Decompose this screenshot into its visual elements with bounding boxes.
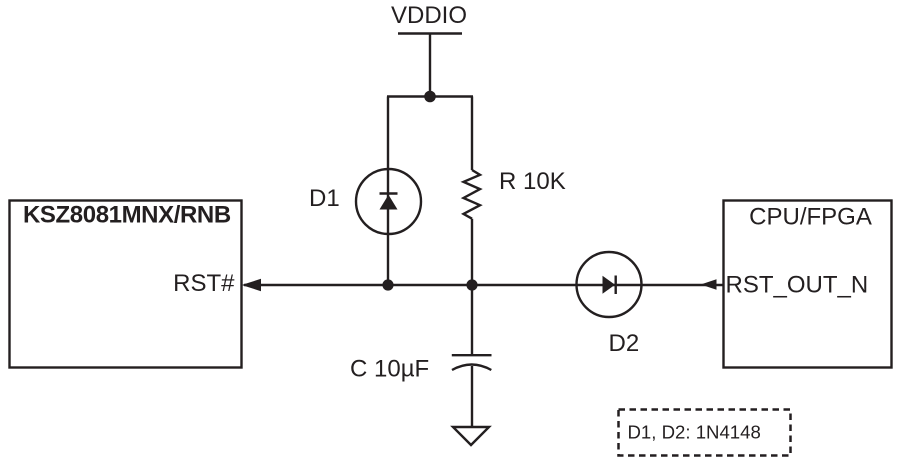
power VDDIO bar	[398, 32, 462, 35]
svg-text:RST_OUT_N: RST_OUT_N	[726, 271, 869, 298]
wire capacitor to ground	[471, 366, 473, 427]
svg-text:R 10K: R 10K	[499, 168, 566, 195]
wire right branch lower	[471, 219, 473, 285]
svg-text:C 10µF: C 10µF	[350, 356, 429, 383]
wire left branch vertical (through D1)	[387, 97, 389, 286]
wire VDDIO bar to top junction	[429, 34, 431, 97]
capacitor C	[452, 355, 492, 370]
svg-text:CPU/FPGA: CPU/FPGA	[749, 203, 872, 230]
diode D1	[356, 169, 421, 234]
resistor R	[464, 170, 481, 219]
svg-text:D2: D2	[609, 330, 640, 357]
arrowhead from CPU output	[701, 279, 717, 289]
svg-text:KSZ8081MNX/RNB: KSZ8081MNX/RNB	[23, 201, 231, 228]
diode D2	[577, 252, 642, 317]
wire right branch upper	[471, 97, 473, 171]
svg-text:RST#: RST#	[173, 270, 235, 297]
junction C node	[466, 279, 477, 290]
svg-text:D1, D2: 1N4148: D1, D2: 1N4148	[628, 422, 761, 443]
note box dashed	[619, 410, 791, 456]
ground	[453, 427, 489, 445]
wire node to capacitor	[471, 285, 473, 354]
box CPU/FPGA	[724, 201, 892, 368]
junction top node	[424, 91, 436, 103]
box KSZ8081MNX/RNB	[10, 201, 242, 368]
wire top horizontal branch	[387, 95, 473, 97]
junction D1 node	[382, 279, 393, 290]
wire main horizontal RST net	[244, 284, 724, 286]
svg-text:VDDIO: VDDIO	[391, 2, 467, 29]
arrowhead into RST#	[242, 279, 261, 291]
svg-text:D1: D1	[309, 185, 340, 212]
